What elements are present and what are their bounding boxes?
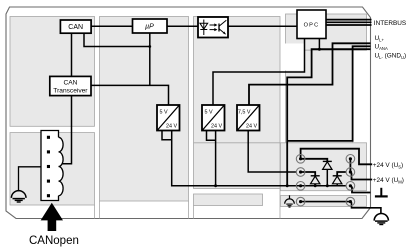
module outline frame (6, 7, 371, 219)
wire OPC to converter 2 (213, 39, 305, 106)
svg-text:24 V: 24 V (246, 124, 257, 130)
svg-text:UANA: UANA (375, 44, 388, 52)
svg-text:+24 V (US): +24 V (US) (373, 162, 403, 170)
wire converter 3 output to terminal 2L (248, 131, 296, 173)
svg-text:OPC: OPC (304, 22, 320, 28)
wire microprocessor to optocoupler (167, 25, 198, 27)
svg-text:CAN: CAN (63, 80, 77, 87)
junction diode 1 bus (326, 184, 329, 187)
svg-text:24 V: 24 V (166, 124, 177, 130)
terminal circle 4R (346, 197, 355, 206)
optocoupler light arrows (210, 23, 218, 31)
gray panel column 4 middle (285, 44, 353, 143)
CAN transceiver box (50, 76, 91, 95)
wire CAN to microprocessor stub node (84, 33, 150, 46)
wire transceiver to converter 1 (91, 85, 169, 105)
wire UL- GND rail (287, 49, 370, 186)
wire terminal 4R to protective earth (350, 202, 381, 214)
wire terminal 2L to diode 2 (301, 172, 316, 176)
gray panel column 2 (microprocessor section) (100, 17, 189, 202)
optocoupler box (198, 17, 228, 38)
microprocessor box U1 (133, 19, 168, 33)
0V chassis symbol (375, 188, 388, 197)
wire converter 1 bridge (162, 131, 172, 140)
junction OPC ground (318, 48, 321, 51)
svg-text:UL- (GNDU): UL- (GNDU) (375, 53, 407, 61)
wire transceiver to CANopen connector (62, 96, 72, 164)
svg-text:5 V: 5 V (160, 110, 168, 116)
OPC box (297, 10, 326, 39)
svg-text:CANopen: CANopen (29, 235, 79, 247)
svg-text:Transceiver: Transceiver (53, 88, 88, 95)
wire UL+ to converter 3 (249, 43, 371, 105)
INTERBUS lines (326, 20, 372, 25)
wire converter 2 output (215, 131, 217, 186)
wire UANA (287, 46, 370, 141)
CANopen connector (41, 131, 63, 201)
INTERBUS label (374, 20, 406, 27)
CANopen arrow (41, 203, 63, 231)
wire OPC ground stub (318, 39, 320, 50)
gray panel column 3 (isolation / converter section) (194, 17, 281, 206)
CAN box (60, 20, 91, 33)
panel gutter separator lines lower margin (95, 189, 281, 219)
junction CAN stub node (148, 45, 151, 48)
FE symbol small right (285, 195, 295, 207)
UL+ label (375, 35, 385, 43)
wire terminal 1L to +24V US label (301, 149, 373, 165)
FE symbol left (functional earth) (11, 191, 26, 202)
wire microprocessor down stub (149, 33, 151, 85)
svg-text:CAN: CAN (68, 24, 83, 31)
svg-text:5 V: 5 V (205, 110, 213, 116)
gray panel column 4 bottom (terminal section) (280, 143, 366, 207)
CANopen label (29, 235, 79, 247)
UL- GND label (375, 53, 407, 61)
gray panel column 4 top strip (OPC / INTERBUS section) (286, 14, 367, 50)
svg-text:+24 V (UM): +24 V (UM) (373, 177, 404, 185)
terminal circle 3L (296, 182, 305, 191)
optocoupler phototransistor (219, 20, 226, 34)
wire terminal row 4 (301, 201, 351, 203)
wire terminal 1R to 2R (349, 159, 351, 172)
optocoupler LED (200, 20, 208, 36)
wire terminal 1L to diode 1 (301, 159, 328, 162)
wire CAN to CAN transceiver (71, 33, 73, 76)
terminal circle 2L (296, 168, 305, 177)
terminal circle 3R (346, 182, 355, 191)
wire terminal 2R to +24V UM label (350, 172, 372, 180)
wire CAN to microprocessor (91, 25, 132, 27)
+24V US label (373, 162, 403, 170)
diode D1 (323, 161, 332, 185)
terminal circle 1L (296, 155, 305, 164)
protective earth symbol bottom right (374, 214, 388, 225)
DC converter 2 (5V/24V) (202, 105, 225, 131)
diode D3 (333, 176, 342, 186)
wire terminal 3R to 0V edge (350, 186, 370, 193)
svg-text:UL+: UL+ (375, 35, 385, 43)
gray panel column 1 (CAN section) (10, 17, 95, 206)
svg-text:µP: µP (145, 24, 154, 31)
DC converter 3 (7.5V/24V) (237, 105, 260, 131)
terminal circle 2R (346, 168, 355, 177)
wire terminal 2R to diode 3 (337, 172, 346, 176)
junction diode 2 bus (314, 184, 317, 187)
diode D2 (311, 176, 320, 186)
junction GND rail on bus (286, 184, 289, 187)
+24V UM label (373, 177, 404, 185)
terminal circle 4L (296, 197, 305, 206)
DC converter 1 (5V/24V) (157, 105, 180, 131)
UANA label (375, 44, 388, 52)
wire converter 1 output bus (172, 131, 347, 186)
svg-text:7,5 V: 7,5 V (238, 110, 251, 116)
terminal circle 1R (346, 155, 355, 164)
svg-text:24 V: 24 V (211, 124, 222, 130)
wire converter 2 bridge (207, 131, 216, 141)
svg-text:INTERBUS: INTERBUS (374, 20, 406, 27)
junction converter 2 bus (214, 184, 217, 187)
wire optocoupler to OPC (228, 25, 297, 27)
wire FE to connector (19, 167, 42, 191)
